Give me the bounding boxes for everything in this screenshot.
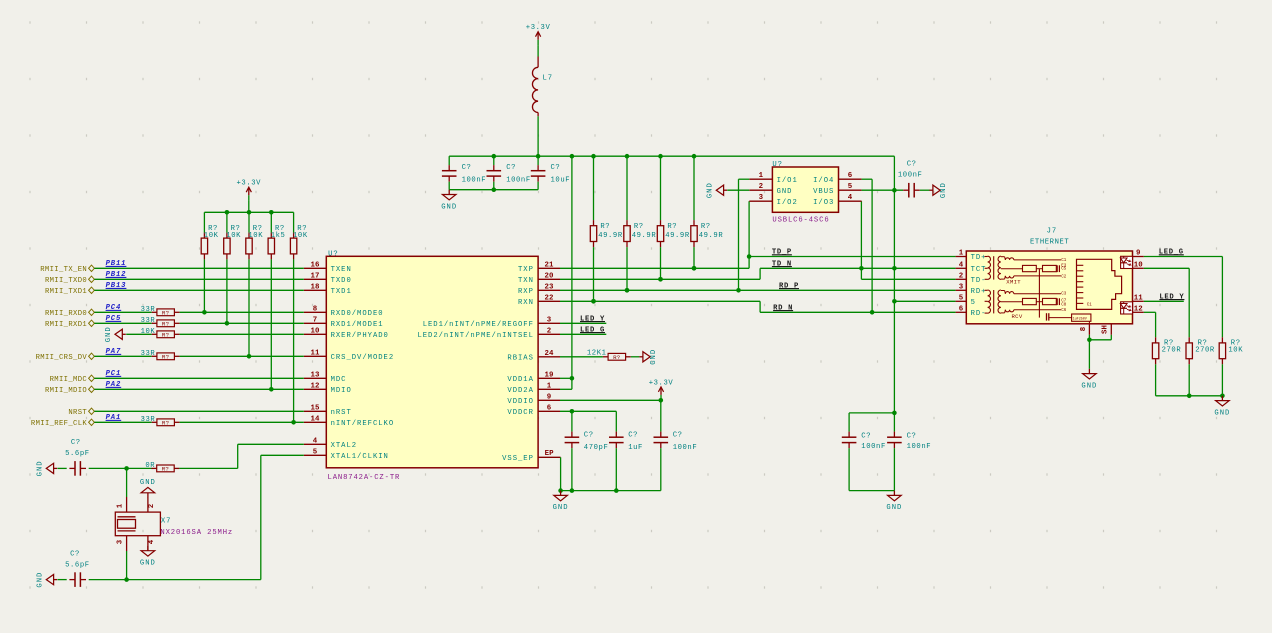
svg-text:100nF: 100nF bbox=[898, 171, 923, 179]
svg-text:GND: GND bbox=[105, 326, 113, 342]
svg-text:1uF250V: 1uF250V bbox=[1073, 318, 1088, 322]
svg-text:12K1: 12K1 bbox=[587, 349, 607, 357]
svg-text:R?: R? bbox=[701, 223, 711, 231]
svg-text:RD+: RD+ bbox=[971, 288, 987, 296]
svg-text:C6: C6 bbox=[1061, 309, 1067, 313]
svg-text:49.9R: 49.9R bbox=[632, 232, 657, 240]
svg-text:VDDIO: VDDIO bbox=[507, 398, 533, 406]
svg-text:10: 10 bbox=[1134, 261, 1143, 269]
svg-text:11: 11 bbox=[311, 349, 320, 357]
svg-text:12: 12 bbox=[311, 382, 320, 390]
svg-text:TXN: TXN bbox=[518, 277, 534, 285]
svg-text:XTAL2: XTAL2 bbox=[331, 442, 357, 450]
svg-text:GND: GND bbox=[940, 182, 948, 198]
svg-text:XMIT: XMIT bbox=[1006, 279, 1021, 286]
svg-text:MDIO: MDIO bbox=[331, 387, 352, 395]
svg-text:R?: R? bbox=[667, 223, 677, 231]
svg-text:8: 8 bbox=[1080, 326, 1088, 331]
svg-text:RMII_CRS_DV: RMII_CRS_DV bbox=[36, 354, 88, 362]
svg-text:GND: GND bbox=[37, 572, 45, 588]
svg-text:GND: GND bbox=[1081, 382, 1097, 390]
svg-text:TXD0: TXD0 bbox=[331, 277, 352, 285]
svg-text:U?: U? bbox=[772, 161, 783, 169]
svg-text:5: 5 bbox=[313, 448, 318, 456]
svg-text:C5: C5 bbox=[1061, 268, 1067, 272]
svg-text:20: 20 bbox=[545, 272, 554, 280]
svg-text:VDD1A: VDD1A bbox=[507, 376, 533, 384]
svg-text:10K: 10K bbox=[141, 328, 156, 336]
svg-text:33R: 33R bbox=[141, 306, 156, 314]
svg-text:11: 11 bbox=[1134, 294, 1143, 302]
svg-text:100nF: 100nF bbox=[907, 443, 932, 451]
svg-text:10K: 10K bbox=[248, 232, 263, 240]
svg-text:470pF: 470pF bbox=[584, 444, 609, 452]
svg-text:RXN: RXN bbox=[518, 299, 534, 307]
svg-text:10K: 10K bbox=[204, 232, 219, 240]
svg-text:R?: R? bbox=[162, 321, 170, 328]
svg-text:ETHERNET: ETHERNET bbox=[1030, 238, 1069, 246]
svg-text:SH: SH bbox=[1102, 325, 1110, 334]
svg-text:RMII_RXD1: RMII_RXD1 bbox=[45, 321, 87, 329]
svg-text:13: 13 bbox=[311, 371, 320, 379]
svg-text:2: 2 bbox=[148, 504, 156, 509]
svg-text:TCT: TCT bbox=[971, 266, 987, 274]
svg-text:C?: C? bbox=[70, 550, 80, 558]
svg-text:1: 1 bbox=[959, 250, 964, 258]
svg-text:3: 3 bbox=[759, 194, 764, 202]
svg-text:I/O4: I/O4 bbox=[813, 177, 834, 185]
svg-text:R?: R? bbox=[600, 223, 610, 231]
svg-text:TXP: TXP bbox=[518, 266, 534, 274]
svg-text:17: 17 bbox=[311, 272, 320, 280]
svg-text:EP: EP bbox=[545, 450, 554, 458]
svg-text:RMII_TX_EN: RMII_TX_EN bbox=[40, 266, 87, 274]
svg-text:15: 15 bbox=[311, 404, 320, 412]
svg-text:MDC: MDC bbox=[331, 376, 347, 384]
svg-text:10: 10 bbox=[311, 327, 320, 335]
svg-text:6: 6 bbox=[547, 404, 552, 412]
svg-text:U?: U? bbox=[328, 250, 339, 258]
svg-text:16: 16 bbox=[311, 261, 320, 269]
svg-text:VBUS: VBUS bbox=[813, 188, 834, 196]
svg-text:49.9R: 49.9R bbox=[699, 232, 724, 240]
svg-text:2: 2 bbox=[959, 272, 964, 280]
svg-text:C?: C? bbox=[462, 164, 472, 172]
svg-text:TD+: TD+ bbox=[971, 254, 987, 262]
svg-text:+3.3V: +3.3V bbox=[649, 379, 674, 387]
svg-text:I/O3: I/O3 bbox=[813, 199, 834, 207]
svg-text:GND: GND bbox=[650, 349, 658, 365]
svg-text:100nF: 100nF bbox=[506, 177, 531, 185]
svg-text:R?: R? bbox=[613, 354, 621, 361]
svg-text:100nF: 100nF bbox=[462, 177, 487, 185]
svg-text:RCV: RCV bbox=[1012, 313, 1023, 320]
svg-text:LED1/nINT/nPME/REGOFF: LED1/nINT/nPME/REGOFF bbox=[423, 321, 534, 329]
svg-text:nINT/REFCLKO: nINT/REFCLKO bbox=[331, 420, 395, 428]
svg-text:GND: GND bbox=[140, 479, 156, 487]
svg-text:RMII_TXD1: RMII_TXD1 bbox=[45, 288, 87, 296]
svg-text:2: 2 bbox=[759, 183, 764, 191]
svg-text:8: 8 bbox=[313, 305, 318, 313]
svg-text:TXEN: TXEN bbox=[331, 266, 352, 274]
svg-text:18: 18 bbox=[311, 283, 320, 291]
svg-text:4: 4 bbox=[959, 261, 964, 269]
svg-text:R?: R? bbox=[162, 466, 170, 473]
svg-text:1uF: 1uF bbox=[628, 444, 643, 452]
svg-text:C2: C2 bbox=[1061, 275, 1067, 279]
svg-text:22: 22 bbox=[545, 294, 554, 302]
svg-text:R?: R? bbox=[162, 310, 170, 317]
svg-text:49.9R: 49.9R bbox=[665, 232, 690, 240]
svg-text:X7: X7 bbox=[161, 518, 172, 526]
svg-text:C3: C3 bbox=[1061, 293, 1067, 297]
svg-text:23: 23 bbox=[545, 283, 554, 291]
svg-text:CRS_DV/MODE2: CRS_DV/MODE2 bbox=[331, 354, 395, 362]
svg-text:TD-: TD- bbox=[971, 277, 987, 285]
svg-text:RMII_RXD0: RMII_RXD0 bbox=[45, 310, 87, 318]
svg-text:21: 21 bbox=[545, 261, 554, 269]
svg-text:10K: 10K bbox=[293, 232, 308, 240]
svg-text:4: 4 bbox=[148, 539, 156, 544]
svg-text:1: 1 bbox=[759, 172, 764, 180]
svg-text:GND: GND bbox=[1214, 409, 1230, 417]
svg-text:10uF: 10uF bbox=[551, 177, 571, 185]
svg-text:C?: C? bbox=[71, 439, 81, 447]
svg-text:I/O2: I/O2 bbox=[777, 199, 798, 207]
svg-text:VSS_EP: VSS_EP bbox=[502, 455, 534, 463]
svg-text:5.6pF: 5.6pF bbox=[65, 450, 90, 458]
svg-text:24: 24 bbox=[545, 350, 554, 358]
svg-text:C?: C? bbox=[551, 164, 561, 172]
svg-text:5: 5 bbox=[971, 299, 976, 307]
svg-text:GND: GND bbox=[140, 560, 156, 568]
svg-text:C?: C? bbox=[907, 433, 917, 441]
svg-text:R?: R? bbox=[162, 420, 170, 427]
svg-text:0R: 0R bbox=[145, 462, 155, 470]
svg-text:GND: GND bbox=[553, 504, 569, 512]
svg-text:RXD0/MODE0: RXD0/MODE0 bbox=[331, 310, 384, 318]
svg-text:C?: C? bbox=[628, 432, 638, 440]
svg-text:1: 1 bbox=[547, 382, 552, 390]
svg-text:RBIAS: RBIAS bbox=[507, 355, 533, 363]
svg-text:4: 4 bbox=[313, 437, 318, 445]
svg-text:C1: C1 bbox=[1061, 259, 1067, 263]
svg-text:VDDCR: VDDCR bbox=[507, 409, 533, 417]
svg-text:33R: 33R bbox=[141, 350, 156, 358]
svg-text:+3.3V: +3.3V bbox=[526, 24, 551, 32]
svg-text:49.9R: 49.9R bbox=[598, 232, 623, 240]
svg-text:C?: C? bbox=[673, 432, 683, 440]
svg-text:GND: GND bbox=[777, 188, 793, 196]
svg-text:19: 19 bbox=[545, 371, 554, 379]
svg-text:RXER/PHYAD0: RXER/PHYAD0 bbox=[331, 332, 389, 340]
svg-text:5: 5 bbox=[959, 294, 964, 302]
svg-text:12: 12 bbox=[1134, 305, 1143, 313]
svg-text:14: 14 bbox=[311, 415, 320, 423]
svg-text:NRST: NRST bbox=[68, 409, 87, 417]
svg-text:RMII_MDC: RMII_MDC bbox=[50, 376, 88, 384]
svg-text:L7: L7 bbox=[543, 74, 554, 82]
svg-text:33R: 33R bbox=[141, 317, 156, 325]
svg-text:1: 1 bbox=[117, 503, 125, 508]
svg-text:100nF: 100nF bbox=[673, 444, 698, 452]
svg-text:VDD2A: VDD2A bbox=[507, 387, 533, 395]
svg-text:LAN8742A-CZ-TR: LAN8742A-CZ-TR bbox=[328, 474, 401, 482]
svg-text:3: 3 bbox=[959, 283, 964, 291]
svg-text:RMII_REF_CLK: RMII_REF_CLK bbox=[31, 420, 88, 428]
svg-text:C?: C? bbox=[506, 164, 516, 172]
svg-text:RXP: RXP bbox=[518, 288, 534, 296]
svg-text:6: 6 bbox=[848, 172, 853, 180]
svg-text:100nF: 100nF bbox=[861, 443, 886, 451]
svg-text:I/O1: I/O1 bbox=[777, 177, 798, 185]
svg-text:270R: 270R bbox=[1195, 347, 1215, 355]
svg-text:RMII_MDIO: RMII_MDIO bbox=[45, 387, 87, 395]
svg-text:10K: 10K bbox=[1228, 347, 1243, 355]
svg-text:2: 2 bbox=[547, 327, 552, 335]
svg-text:C8: C8 bbox=[1061, 303, 1067, 307]
svg-text:3: 3 bbox=[547, 316, 552, 324]
svg-text:J7: J7 bbox=[1047, 227, 1058, 235]
svg-text:4: 4 bbox=[848, 194, 853, 202]
svg-text:1k5: 1k5 bbox=[271, 232, 286, 240]
svg-text:5.6pF: 5.6pF bbox=[65, 562, 90, 570]
svg-text:10K: 10K bbox=[226, 232, 241, 240]
svg-text:C?: C? bbox=[861, 433, 871, 441]
svg-text:9: 9 bbox=[547, 393, 552, 401]
svg-text:R?: R? bbox=[162, 354, 170, 361]
svg-text:LED2/nINT/nPME/nINTSEL: LED2/nINT/nPME/nINTSEL bbox=[417, 332, 533, 340]
svg-text:RMII_TXD0: RMII_TXD0 bbox=[45, 277, 87, 285]
svg-text:7: 7 bbox=[313, 316, 318, 324]
svg-text:C1: C1 bbox=[1087, 303, 1093, 307]
svg-text:9: 9 bbox=[1136, 250, 1141, 258]
svg-text:+3.3V: +3.3V bbox=[237, 180, 262, 188]
svg-text:C?: C? bbox=[907, 160, 917, 168]
svg-text:R?: R? bbox=[634, 223, 644, 231]
svg-text:GND: GND bbox=[37, 460, 45, 476]
svg-text:270R: 270R bbox=[1162, 347, 1182, 355]
svg-text:GND: GND bbox=[441, 203, 457, 211]
svg-text:33R: 33R bbox=[141, 416, 156, 424]
svg-text:RD-: RD- bbox=[971, 310, 987, 318]
svg-text:5: 5 bbox=[848, 183, 853, 191]
svg-text:nRST: nRST bbox=[331, 409, 352, 417]
svg-text:GND: GND bbox=[707, 182, 715, 198]
svg-text:USBLC6-4SC6: USBLC6-4SC6 bbox=[772, 216, 829, 224]
svg-text:C?: C? bbox=[584, 432, 594, 440]
svg-text:3: 3 bbox=[117, 539, 125, 544]
svg-text:6: 6 bbox=[959, 305, 964, 313]
svg-text:XTAL1/CLKIN: XTAL1/CLKIN bbox=[331, 453, 389, 461]
svg-text:GND: GND bbox=[886, 504, 902, 512]
svg-text:TXD1: TXD1 bbox=[331, 288, 352, 296]
svg-text:RXD1/MODE1: RXD1/MODE1 bbox=[331, 321, 384, 329]
svg-text:NX2016SA 25MHz: NX2016SA 25MHz bbox=[160, 529, 233, 537]
svg-text:R?: R? bbox=[162, 332, 170, 339]
